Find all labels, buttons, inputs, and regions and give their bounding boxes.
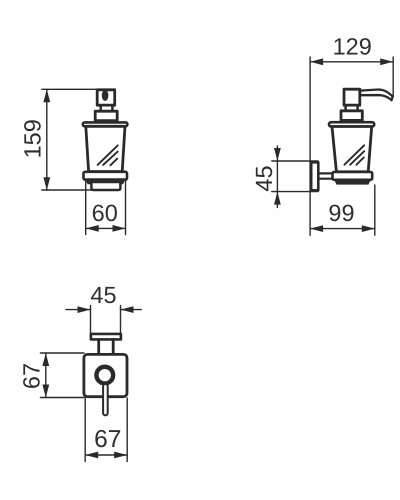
svg-text:67: 67: [94, 426, 121, 453]
svg-text:60: 60: [92, 200, 118, 226]
svg-text:159: 159: [19, 119, 45, 158]
svg-text:45: 45: [90, 282, 116, 308]
svg-text:99: 99: [328, 200, 354, 226]
svg-text:67: 67: [18, 363, 44, 389]
svg-text:45: 45: [251, 165, 277, 191]
svg-text:129: 129: [333, 34, 372, 60]
